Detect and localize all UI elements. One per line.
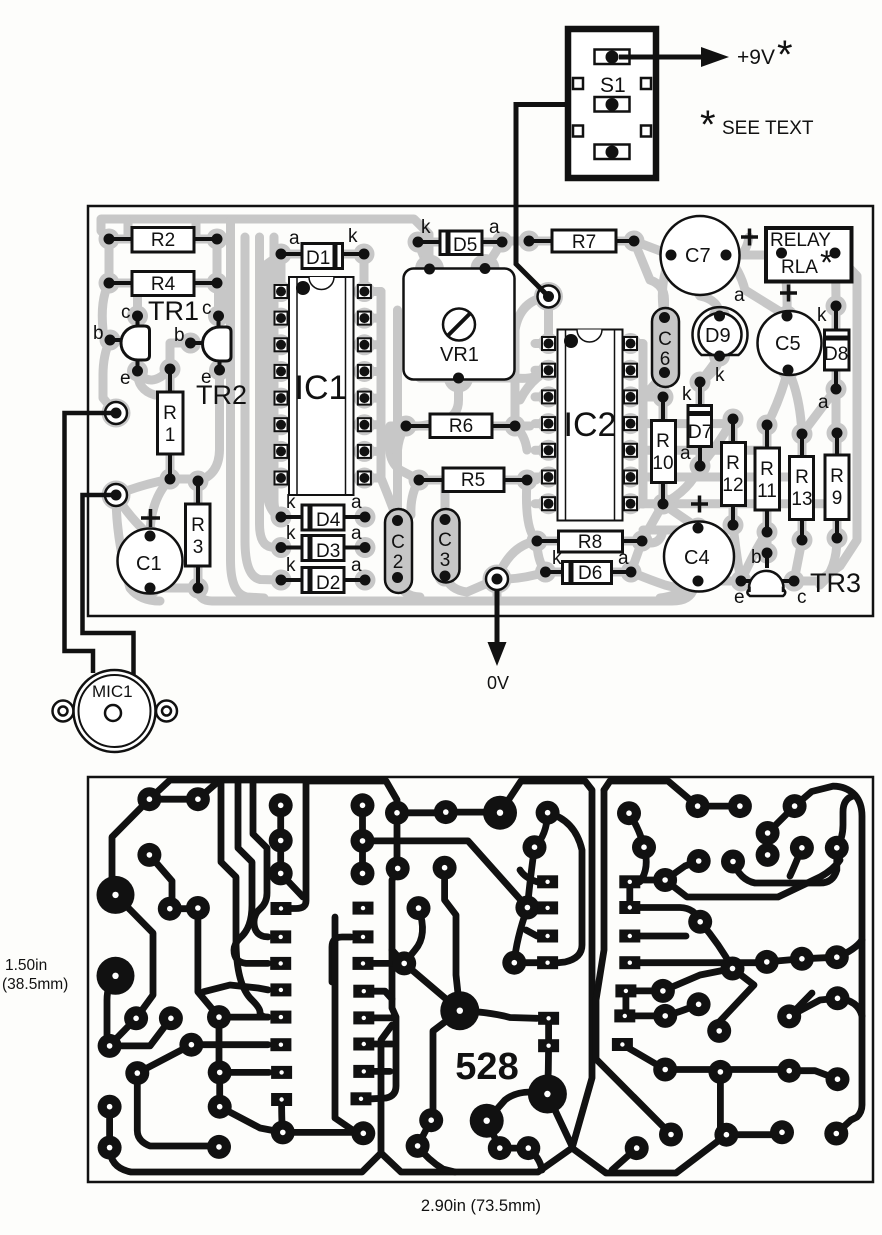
svg-text:k: k — [715, 365, 725, 386]
svg-text:a: a — [489, 217, 500, 238]
svg-text:1: 1 — [165, 425, 176, 446]
svg-text:D8: D8 — [824, 344, 848, 365]
svg-text:a: a — [351, 555, 362, 576]
svg-text:c: c — [121, 302, 131, 323]
svg-text:k: k — [552, 548, 562, 569]
resistor R3 — [186, 476, 211, 594]
svg-text:D7: D7 — [688, 422, 712, 443]
svg-text:10: 10 — [652, 453, 673, 474]
svg-text:6: 6 — [660, 349, 671, 370]
svg-text:0V: 0V — [487, 673, 509, 693]
svg-text:b: b — [93, 323, 104, 344]
svg-text:TR1: TR1 — [148, 296, 199, 326]
svg-text:C7: C7 — [685, 245, 711, 267]
wire mic upper — [65, 413, 117, 673]
svg-text:D9: D9 — [705, 325, 731, 347]
svg-text:SEE TEXT: SEE TEXT — [722, 118, 814, 139]
svg-text:TR2: TR2 — [196, 380, 247, 410]
diode D4 — [276, 492, 371, 531]
svg-text:C: C — [438, 530, 452, 551]
svg-text:a: a — [680, 443, 691, 464]
svg-text:*: * — [777, 33, 793, 77]
svg-text:k: k — [286, 555, 296, 576]
svg-text:13: 13 — [791, 489, 812, 510]
svg-text:D1: D1 — [306, 248, 330, 269]
svg-text:IC1: IC1 — [295, 369, 348, 407]
svg-text:C: C — [391, 532, 405, 553]
capacitor C5 — [758, 311, 822, 376]
diode D8 — [817, 301, 849, 414]
svg-text:R4: R4 — [151, 274, 176, 295]
capacitor C6 — [652, 308, 679, 387]
svg-text:+9V: +9V — [737, 46, 775, 69]
resistor R11 — [755, 420, 780, 538]
svg-text:C1: C1 — [136, 553, 162, 575]
svg-text:*: * — [820, 244, 833, 282]
svg-text:R: R — [191, 515, 205, 536]
board outline top — [88, 206, 873, 616]
svg-text:R: R — [795, 467, 809, 488]
connector ring pad upper — [105, 402, 127, 424]
trimmer VR1 — [404, 263, 515, 384]
transistor TR3 — [734, 547, 807, 608]
svg-text:k: k — [682, 384, 692, 405]
diode D9 — [692, 285, 747, 386]
resistor R2 — [104, 228, 223, 253]
svg-text:D4: D4 — [316, 510, 341, 531]
wire S1 to board — [516, 105, 612, 297]
resistor R12 — [722, 414, 746, 531]
IC2 right pins — [624, 337, 637, 510]
capacitor C4 — [664, 496, 734, 592]
svg-text:R: R — [830, 466, 844, 487]
svg-text:D6: D6 — [578, 563, 602, 584]
svg-text:D2: D2 — [316, 573, 340, 594]
svg-text:RLA: RLA — [781, 257, 818, 278]
components layer — [93, 216, 861, 608]
diode D5 — [413, 217, 508, 256]
svg-text:528: 528 — [455, 1046, 518, 1088]
transistor TR2 — [174, 298, 231, 388]
svg-text:R: R — [760, 459, 774, 480]
svg-text:k: k — [286, 523, 296, 544]
svg-text:e: e — [734, 587, 745, 608]
wire mic lower — [83, 495, 134, 675]
ring pad 0V — [486, 568, 508, 590]
IC1 right pins — [358, 285, 371, 485]
svg-text:a: a — [351, 523, 362, 544]
svg-text:k: k — [817, 305, 827, 326]
resistor R8 — [532, 531, 648, 553]
IC IC2 — [558, 330, 623, 521]
IC1 left pins — [275, 285, 288, 485]
IC IC1 — [289, 277, 354, 495]
svg-text:k: k — [348, 226, 358, 247]
svg-text:R5: R5 — [461, 470, 485, 491]
off-board items: S1, wires, mic, arrows — [53, 29, 814, 752]
pcb pads bottom board — [137, 787, 161, 811]
svg-text:C5: C5 — [775, 333, 801, 355]
bottom copper board — [88, 777, 873, 1182]
diode D6 — [540, 548, 637, 584]
svg-text:R8: R8 — [578, 532, 602, 553]
transistor TR1 — [93, 302, 150, 389]
svg-text:c: c — [797, 587, 807, 608]
IC2 left pins — [542, 337, 555, 510]
svg-text:1.50in: 1.50in — [5, 957, 47, 974]
svg-text:R2: R2 — [151, 230, 175, 251]
svg-text:a: a — [289, 228, 300, 249]
plus sign C5 — [780, 285, 797, 302]
svg-text:k: k — [421, 217, 431, 238]
connector ring pad lower — [105, 484, 127, 506]
svg-text:12: 12 — [722, 475, 743, 496]
svg-text:IC2: IC2 — [564, 406, 617, 444]
ring pad S1 wire — [538, 286, 560, 308]
svg-text:a: a — [734, 285, 745, 306]
0V arrow — [487, 590, 509, 693]
svg-text:C: C — [658, 329, 672, 350]
resistor R7 — [524, 230, 640, 253]
svg-text:3: 3 — [440, 550, 451, 571]
resistor R6 — [401, 414, 521, 438]
svg-text:3: 3 — [193, 537, 204, 558]
svg-text:R: R — [726, 453, 740, 474]
svg-text:a: a — [818, 392, 829, 413]
diode D2 — [276, 555, 371, 594]
microphone MIC1 — [53, 670, 178, 752]
svg-text:9: 9 — [832, 488, 843, 509]
svg-text:D5: D5 — [453, 235, 477, 256]
resistor R4 — [104, 272, 223, 296]
svg-text:R6: R6 — [449, 416, 473, 437]
svg-text:C4: C4 — [684, 547, 710, 569]
svg-text:R: R — [163, 403, 177, 424]
capacitor C7 — [661, 216, 759, 295]
svg-text:TR3: TR3 — [810, 568, 861, 598]
svg-text:D3: D3 — [316, 541, 340, 562]
resistor R13 — [790, 429, 814, 546]
resistor R10 — [652, 392, 676, 510]
resistor R5 — [414, 468, 533, 492]
svg-text:(38.5mm): (38.5mm) — [2, 976, 68, 993]
svg-text:k: k — [286, 492, 296, 513]
svg-text:2.90in (73.5mm): 2.90in (73.5mm) — [421, 1197, 541, 1215]
relay RLA — [766, 228, 852, 282]
resistor R1 — [158, 364, 184, 485]
capacitor C2 — [385, 509, 412, 593]
GREY copper traces of component-side board — [101, 219, 857, 601]
diode D3 — [276, 523, 371, 562]
SEE TEXT note — [700, 103, 814, 147]
svg-text:b: b — [174, 325, 185, 346]
switch S1 — [568, 29, 656, 178]
capacitor C1 — [118, 509, 183, 594]
svg-text:S1: S1 — [600, 74, 626, 97]
capacitor C3 — [433, 509, 460, 583]
svg-text:c: c — [202, 298, 212, 319]
svg-text:a: a — [351, 492, 362, 513]
svg-text:*: * — [700, 103, 716, 147]
svg-text:2: 2 — [393, 552, 404, 573]
svg-text:b: b — [751, 547, 762, 568]
diode D7 — [680, 377, 712, 472]
svg-text:a: a — [618, 548, 629, 569]
resistor R9 — [825, 428, 849, 544]
svg-text:11: 11 — [757, 481, 777, 502]
diode D1 — [276, 226, 370, 269]
svg-text:R7: R7 — [572, 232, 596, 253]
+9V arrow — [619, 33, 793, 77]
svg-text:e: e — [120, 368, 131, 389]
svg-text:MIC1: MIC1 — [92, 682, 133, 701]
svg-text:R: R — [656, 431, 670, 452]
svg-text:VR1: VR1 — [440, 344, 479, 366]
